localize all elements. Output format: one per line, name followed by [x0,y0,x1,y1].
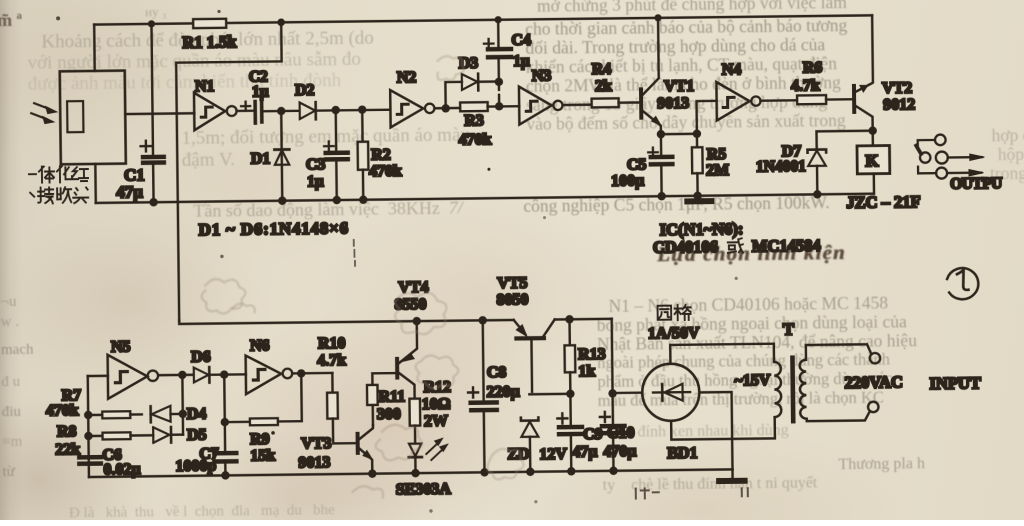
svg-text:4.7k: 4.7k [791,77,820,94]
AC input terminals [806,344,881,421]
node C4/D3 junction [495,78,503,86]
svg-text:1000p: 1000p [175,458,216,475]
resistor R5 [692,134,703,200]
svg-text:1μ: 1μ [307,173,324,190]
inverter N2 [390,89,461,127]
svg-text:1N4001: 1N4001 [756,158,806,176]
svg-text:D6: D6 [191,349,211,366]
wire top supply rail [94,15,872,24]
wire bottom ground rail [89,469,733,477]
paper crease dashes [354,240,355,266]
speck dot [487,168,490,171]
diode D2 [281,101,390,119]
svg-text:47μ: 47μ [116,182,143,201]
capacitor C2 [237,101,282,123]
svg-text:470k: 470k [46,402,79,419]
svg-text:N1: N1 [195,78,215,95]
resistor R10 [327,373,356,444]
svg-text:300: 300 [377,406,401,423]
svg-text:C3: C3 [306,156,326,173]
capacitor C7 [214,453,236,480]
svg-text:9012: 9012 [883,96,915,113]
transistor VT2 [853,15,873,131]
IR receiver lens window [67,101,83,132]
svg-text:N2: N2 [397,69,417,86]
capacitor C1 [139,20,164,206]
svg-text:470k: 470k [369,163,402,180]
label receiver chinese line2 (接收头) [30,187,88,204]
svg-text:R13: R13 [578,346,606,363]
resistor R11 [367,373,396,425]
IR receiver module box [60,71,126,165]
svg-text:R4: R4 [592,61,612,78]
svg-text:15k: 15k [250,447,275,464]
wire receiver output to N1 [125,112,194,115]
svg-text:2k: 2k [595,78,612,95]
svg-text:N5: N5 [111,339,131,356]
svg-text:T: T [783,320,795,339]
svg-text:D1: D1 [251,150,271,167]
node R5/N4 junction [693,130,701,138]
svg-text:R9: R9 [250,431,270,448]
node R3/N3 junction [495,102,503,110]
svg-text:1A/50V: 1A/50V [648,325,700,343]
svg-text:12V: 12V [539,446,567,463]
transistor VT4 [397,317,422,399]
wire C7/R9 vertical [223,375,226,452]
svg-text:JZC – 21F: JZC – 21F [846,192,920,212]
wire bottom-section +12V rail [179,317,514,324]
resistor R9 [220,373,302,426]
wire +12V feed from bottom section [176,18,289,320]
svg-text:2W: 2W [424,413,448,430]
transformer secondary coil [774,362,781,417]
svg-text:9013: 9013 [298,454,330,471]
node VT2 collector junction [868,126,876,134]
capacitor C10 [599,319,625,475]
svg-text:R6: R6 [803,59,823,76]
node N6 input junction [220,370,228,378]
svg-text:VT1: VT1 [664,78,694,95]
node VT1 emitter junction [657,130,665,138]
inverter N4 [716,81,797,120]
svg-text:R1 1.5k: R1 1.5k [182,32,237,52]
svg-text:D5: D5 [187,427,207,444]
capacitor C6 [79,457,101,464]
svg-text:R10: R10 [318,335,346,352]
svg-text:SE303A: SE303A [396,481,452,499]
svg-text:ZD: ZD [507,446,529,463]
wire emitter node to R5/N4 [661,133,697,136]
diode D1 clamp [274,111,290,205]
svg-text:C8: C8 [487,364,507,381]
svg-text:220VAC: 220VAC [844,372,903,392]
transformer primary coil [800,360,807,419]
svg-text:R3: R3 [464,112,484,129]
svg-text:VT5: VT5 [497,275,527,292]
wire rail right part to C10 [555,318,612,321]
bridge rectifier BD1 [612,344,775,479]
node R9 feedback junction [297,369,305,377]
svg-text:D4: D4 [187,406,207,423]
node R7 tap [84,411,92,419]
svg-text:220μ: 220μ [486,383,519,400]
svg-text:22k: 22k [55,441,80,458]
diode D6 [194,367,246,383]
resistor R8 [88,432,153,440]
wire receiver ground pin [94,164,97,203]
wire N4 input [697,101,717,134]
ink specks [217,10,220,13]
LED SE303A [409,438,448,477]
svg-text:D1 ~ D6:1N4148×6: D1 ~ D6:1N4148×6 [199,218,350,239]
relay output contacts [916,134,985,179]
right column faint page text [537,0,847,17]
capacitor C5 [648,134,673,200]
capacitor C4 [484,16,512,82]
wire diode return vertical [181,375,184,435]
svg-text:R5: R5 [707,146,727,163]
svg-text:CD40106: CD40106 [653,237,718,257]
svg-text:0.02μ: 0.02μ [103,461,140,478]
svg-text:R2: R2 [371,146,391,163]
svg-text:C10: C10 [607,425,635,442]
transistor VT5 regulator [514,319,556,391]
inverter N3 [519,86,592,125]
svg-text:N6: N6 [250,337,270,354]
resistor R2 [357,110,369,204]
svg-text:D2: D2 [295,82,315,99]
svg-text:C4: C4 [511,32,531,49]
bottom dark fragment marks [636,487,748,498]
svg-text:R11: R11 [379,388,406,405]
svg-text:R8: R8 [57,423,77,440]
ground symbol bottom [719,478,744,484]
node diode/output junctions [178,371,186,379]
inverter N6 [246,355,333,395]
label bridge chinese (园桥) [658,305,691,320]
figure number circled 1 [947,268,979,300]
resistor R6 [797,95,853,104]
svg-text:~15V: ~15V [734,372,771,389]
capacitor C3 [324,110,349,204]
svg-text:MC14584: MC14584 [752,236,821,256]
svg-text:2M: 2M [706,162,729,179]
svg-text:470k: 470k [458,131,491,148]
svg-text:10Ω: 10Ω [422,396,451,413]
wire C4 to R3 (broken) [498,82,501,106]
left edge fragments [0,10,22,31]
svg-text:VT3: VT3 [301,435,331,452]
wire top-section ground rail [96,194,874,203]
node R8 tap [84,432,92,440]
diode D4 [151,406,183,423]
ground symbol top section [687,198,711,204]
node N2 output [441,104,449,112]
node R2 junction [358,105,366,113]
transistor VT1 [640,14,663,134]
svg-text:C9: C9 [583,426,603,443]
svg-text:N3: N3 [532,68,552,85]
bottom-left faint [69,502,335,522]
wire D3 branch up [445,82,462,108]
svg-text:1k: 1k [578,363,595,380]
resistor R12 [409,399,420,444]
svg-text:1μ: 1μ [513,53,530,70]
svg-text:9013: 9013 [657,95,689,112]
svg-text:470μ: 470μ [603,443,636,460]
IR input arrows [31,103,57,124]
resistor R7 [88,411,142,418]
resistor R4 [592,98,640,107]
svg-text:IC(N1~N6):: IC(N1~N6): [660,219,744,239]
inverter N5 [108,354,159,399]
zener ZD [521,417,539,476]
svg-text:4.7k: 4.7k [317,352,346,369]
svg-text:K: K [865,151,879,170]
node C3 junction [331,106,339,114]
svg-text:1μ: 1μ [252,83,269,100]
svg-text:C5: C5 [627,156,647,173]
transformer T core [790,358,795,421]
inverter N1 [194,92,237,130]
diode D5 [153,427,183,443]
svg-text:8050: 8050 [496,291,528,308]
wire VT5 base node [529,393,570,396]
wire left feedback vertical [88,376,89,477]
label huo chinese (或) [728,238,743,253]
svg-text:BD1: BD1 [667,445,697,462]
node C2/D1/D2 junction [277,107,285,115]
svg-text:INPUT: INPUT [929,373,981,393]
relay K coil [857,131,890,194]
bleed doodles [199,55,524,499]
svg-text:OUTPU: OUTPU [950,175,1002,193]
resistor R1 [193,19,226,28]
svg-text:N4: N4 [722,61,742,78]
svg-text:100μ: 100μ [611,172,644,189]
svg-text:VT2: VT2 [882,80,912,97]
resistor R13 [564,315,575,398]
wire receiver vcc drop [93,25,96,71]
left column faint page text [41,28,374,54]
node C8 rail junction [478,316,486,324]
wire D7 branch [816,131,872,150]
diode D7 [808,149,827,198]
capacitor C8 [467,320,497,477]
wire N5 out row [158,374,193,377]
transistor VT3 [357,425,376,478]
svg-text:47μ: 47μ [572,444,597,461]
resistor R3 [460,102,519,111]
capacitor C9 [557,394,582,476]
diode D3 [462,73,499,90]
wire N5 input [88,375,108,378]
label receiver chinese line1 (一体化红) [29,166,88,183]
